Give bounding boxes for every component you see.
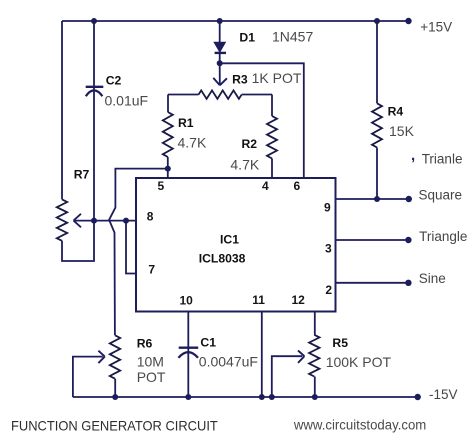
node Triangle terminal [405,237,411,243]
wire R6 wiper arrow [73,357,103,397]
wire left rail from +15V to R7 [61,21,63,199]
op-amp U1 IC1 ICL8038 box [136,178,336,312]
wire D1 node to pin 6 [220,63,304,178]
svg-text:www.circuitstoday.com: www.circuitstoday.com [293,417,426,432]
svg-text:15K: 15K [389,123,415,139]
svg-text:R5: R5 [332,336,348,350]
wire pin 11 down to rail [261,312,263,398]
svg-text:100K POT: 100K POT [326,354,392,370]
capacitor C2 [86,86,104,88]
node -15V terminal [415,394,421,400]
wire R2 bottom to pin 4 [271,159,273,179]
svg-text:0.0047uF: 0.0047uF [199,354,258,370]
wire pin 2 to Sine terminal [336,282,409,284]
svg-text:1N457: 1N457 [272,28,313,44]
wire pin5 node to R6 vertical (with hop over pin8 wire) [109,169,168,336]
wire pin7 branch down and right to IC pin 7 [126,221,136,274]
resistor R4 [376,21,378,103]
svg-text:5: 5 [158,179,165,193]
node R4 / pin9 junction [374,196,380,202]
wire R3 wiper arrow from D1 node [219,63,221,84]
svg-text:R4: R4 [388,104,404,118]
svg-text:-15V: -15V [429,387,458,402]
svg-text:+15V: +15V [420,19,452,34]
wire top rail down to C2 [93,21,95,221]
wire top +15V rail [62,20,408,22]
node +15V terminal [405,18,411,24]
diode D1 [219,21,221,43]
svg-text:Square: Square [419,187,463,202]
node R5 wiper junction [269,394,275,400]
node R6 bottom junction [112,394,118,400]
svg-text:Sine: Sine [419,271,446,286]
svg-text:6: 6 [294,179,301,193]
node pin 5 junction [165,166,171,172]
svg-text:R3: R3 [232,72,248,86]
wire pin 10 down to C1 [187,312,189,398]
svg-text:R6: R6 [137,336,153,350]
resistor R2 [271,95,273,117]
svg-text:,: , [411,147,415,164]
svg-text:2: 2 [325,283,332,297]
node top rail / D1 branch junction [217,18,223,24]
wire R1 bottom to pin 5 [167,157,169,178]
svg-text:4.7K: 4.7K [178,135,207,151]
svg-text:0.01uF: 0.01uF [105,93,149,109]
node Sine terminal [405,280,411,286]
resistor R3 (1K POT) [168,94,199,96]
node top rail / R4 branch junction [374,18,380,24]
wire pin 8 horizontal [94,220,136,222]
node Square terminal [406,196,412,202]
svg-text:Triangle: Triangle [419,229,467,244]
capacitor C1 [179,347,199,349]
node C1 bottom junction [185,394,191,400]
svg-text:C2: C2 [106,74,122,88]
svg-text:3: 3 [325,242,332,256]
svg-text:ICL8038: ICL8038 [199,252,246,266]
svg-text:POT: POT [137,369,166,385]
wire R5 wiper arrow [272,356,302,397]
svg-text:9: 9 [324,201,331,215]
svg-text:4.7K: 4.7K [230,157,259,173]
svg-text:8: 8 [147,210,154,224]
svg-text:11: 11 [252,293,265,307]
resistor R6 (10M POT) [110,335,120,378]
svg-text:D1: D1 [239,30,255,44]
svg-text:IC1: IC1 [220,233,239,247]
svg-text:1K POT: 1K POT [252,70,302,86]
svg-text:R2: R2 [242,137,258,151]
wire bottom -15V rail [73,396,418,398]
node top rail / C2 branch junction [91,18,97,24]
node wiper/pin8 junction at x=94 [91,218,97,224]
svg-text:10: 10 [180,294,194,308]
svg-text:C1: C1 [200,336,216,350]
node pin11 junction [259,394,265,400]
svg-text:12: 12 [292,293,306,307]
svg-text:Trianle: Trianle [422,151,463,166]
node pin7 branch junction [123,218,129,224]
wire pin 3 to Triangle terminal [336,239,409,241]
node R5 bottom junction [312,394,318,400]
svg-text:7: 7 [148,263,155,277]
resistor R1 [163,112,173,157]
wire R7 bottom loop to wiper line [62,221,94,261]
wire R7 wiper arrow to pin8 line [75,220,94,222]
wire pin 12 down to R5 [314,312,316,335]
wire R3 left lead down to R1 [167,95,169,113]
wire pin 9 to Square terminal [336,198,409,200]
svg-text:4: 4 [262,179,269,193]
svg-text:FUNCTION GENERATOR CIRCUIT: FUNCTION GENERATOR CIRCUIT [11,418,218,434]
svg-text:R7: R7 [74,168,90,182]
svg-text:10M: 10M [137,354,164,370]
resistor R5 (100K POT) [309,335,319,377]
node D1 cathode junction [217,60,223,66]
svg-text:R1: R1 [178,116,194,130]
resistor R7 [57,199,67,240]
